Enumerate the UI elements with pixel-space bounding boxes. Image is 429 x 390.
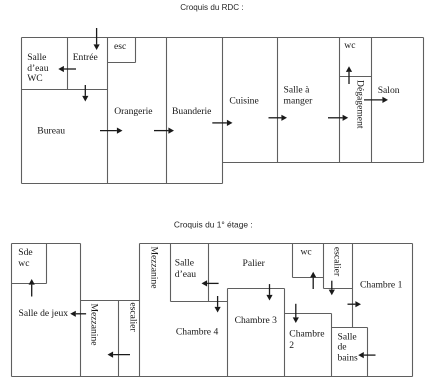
svg-text:Buanderie: Buanderie: [172, 106, 211, 117]
svg-text:manger: manger: [284, 95, 314, 106]
svg-text:Bureau: Bureau: [37, 126, 65, 137]
svg-text:bains: bains: [338, 353, 359, 364]
svg-text:Salle à: Salle à: [284, 84, 311, 95]
svg-text:Chambre: Chambre: [289, 329, 324, 340]
svg-text:Cuisine: Cuisine: [229, 96, 258, 107]
svg-text:Croquis du RDC :: Croquis du RDC :: [180, 3, 243, 12]
svg-text:Mezzanine: Mezzanine: [149, 246, 160, 288]
svg-text:esc: esc: [114, 41, 126, 52]
svg-text:2: 2: [289, 340, 294, 351]
svg-text:Chambre 3: Chambre 3: [235, 315, 278, 326]
svg-text:d’eau: d’eau: [175, 269, 197, 280]
svg-text:WC: WC: [27, 73, 42, 84]
svg-text:Orangerie: Orangerie: [114, 106, 152, 117]
svg-text:Sde: Sde: [18, 247, 32, 258]
svg-text:Salle de jeux: Salle de jeux: [19, 308, 69, 319]
svg-text:Chambre 4: Chambre 4: [176, 326, 219, 337]
svg-text:wc: wc: [344, 40, 355, 51]
svg-text:Entrée: Entrée: [73, 52, 98, 63]
svg-text:escalier: escalier: [128, 302, 139, 332]
svg-text:Salle: Salle: [27, 52, 46, 63]
svg-text:Croquis du 1° étage :: Croquis du 1° étage :: [174, 220, 253, 230]
svg-text:Chambre 1: Chambre 1: [360, 280, 403, 291]
svg-text:Dégagement: Dégagement: [354, 80, 365, 129]
svg-text:wc: wc: [301, 247, 312, 258]
svg-text:wc: wc: [18, 258, 29, 269]
svg-text:Mezzanine: Mezzanine: [88, 303, 99, 345]
svg-text:Palier: Palier: [243, 258, 266, 269]
svg-text:de: de: [338, 342, 347, 353]
svg-text:escalier: escalier: [332, 247, 343, 277]
svg-text:Salle: Salle: [175, 258, 194, 269]
svg-text:Salon: Salon: [378, 85, 400, 96]
